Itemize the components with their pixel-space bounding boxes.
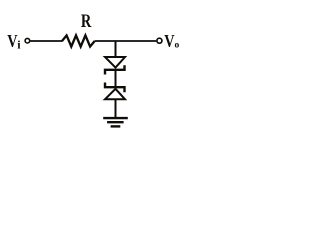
wire diode D2 to ground xyxy=(115,99,117,117)
node junction wire down xyxy=(115,41,117,57)
svg-text:V: V xyxy=(164,32,175,51)
svg-text:V: V xyxy=(7,32,18,51)
label Vo (output node) xyxy=(164,32,179,51)
output terminal (open circle) xyxy=(157,38,162,43)
ground xyxy=(103,118,128,126)
zener diode D1 (anode up, cathode down) xyxy=(105,57,125,75)
wire input terminal to resistor xyxy=(30,40,63,42)
wire between diodes xyxy=(115,70,117,87)
label Vi (input node) xyxy=(7,32,21,51)
wire resistor to output terminal xyxy=(95,40,157,42)
svg-text:i: i xyxy=(17,37,21,51)
svg-text:o: o xyxy=(175,41,180,51)
resistor R xyxy=(62,35,95,46)
zener diode D2 (cathode up, anode down) xyxy=(105,83,125,100)
svg-text:R: R xyxy=(81,10,92,31)
input terminal (open circle) xyxy=(25,38,30,43)
